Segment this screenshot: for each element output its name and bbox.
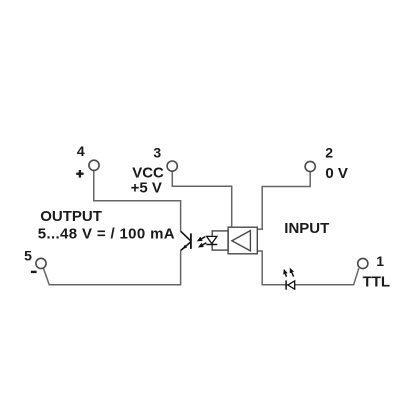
svg-text:INPUT: INPUT	[284, 220, 329, 237]
svg-text:2: 2	[325, 145, 333, 161]
svg-text:0 V: 0 V	[325, 165, 348, 182]
svg-text:TTL: TTL	[363, 273, 391, 290]
svg-text:5...48 V = / 100 mA: 5...48 V = / 100 mA	[38, 226, 175, 243]
svg-text:+5 V: +5 V	[131, 180, 162, 197]
svg-text:5: 5	[24, 248, 32, 264]
svg-text:1: 1	[376, 253, 384, 269]
svg-text:3: 3	[153, 145, 161, 161]
svg-text:OUTPUT: OUTPUT	[40, 208, 102, 225]
svg-text:4: 4	[77, 143, 85, 159]
